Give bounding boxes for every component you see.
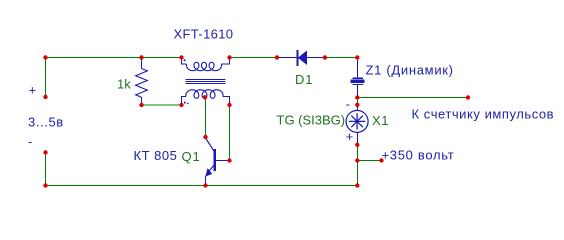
wire Z1 bottom to counter output	[358, 97, 469, 99]
node transformer primary top-left	[179, 55, 183, 59]
node transformer secondary right	[227, 103, 231, 107]
node Q1 collector junction	[227, 158, 231, 162]
node diode cathode-side	[323, 55, 327, 59]
transistor Q1 base bar	[214, 149, 216, 171]
node transformer primary top-right	[227, 55, 231, 59]
node bottom-right corner	[355, 183, 359, 187]
node transformer center tap	[203, 95, 207, 99]
transistor Q1 KT805 base lead	[206, 138, 215, 151]
Geiger tube X1 star symbol	[349, 113, 365, 129]
transistor Q1 collector lead	[216, 160, 229, 162]
wire top rail right segment	[325, 57, 357, 59]
Geiger tube X1 leads	[357, 106, 359, 144]
svg-text:Z1 (Динамик): Z1 (Динамик)	[366, 62, 454, 77]
wire secondary right to collector	[229, 105, 231, 161]
node Z1 top	[355, 55, 359, 59]
wire top rail left segment	[46, 57, 182, 59]
svg-text:+: +	[29, 83, 37, 98]
node X1 anode terminal	[355, 103, 359, 107]
piezo speaker Z1	[351, 60, 365, 96]
svg-text:TG (SI3BG): TG (SI3BG)	[277, 113, 346, 128]
transformer T1 core	[186, 79, 226, 83]
wire center tap to base	[205, 98, 207, 138]
transformer T1 phase dot mark 2 (secondary)	[187, 103, 189, 105]
wire resistor bottom to secondary	[142, 104, 182, 106]
node +350V terminal	[379, 158, 383, 162]
svg-text:3...5в: 3...5в	[28, 114, 64, 129]
transformer T1 phase dot (primary)	[184, 59, 186, 61]
node Q1 emitter junction	[203, 183, 207, 187]
wire left battery plus lead	[45, 58, 47, 98]
wire X1 bottom down to bottom rail	[357, 145, 359, 186]
svg-text:КТ 805: КТ 805	[134, 148, 178, 163]
node transformer secondary left	[179, 103, 183, 107]
wire bottom rail	[46, 185, 358, 187]
transformer T1 XFT-1610 primary winding (top coil)	[182, 58, 187, 65]
resistor R1 1k	[136, 59, 148, 104]
Geiger tube X1 SI3BG circle	[346, 110, 368, 132]
svg-text:-: -	[346, 96, 350, 111]
node +350V junction	[355, 158, 359, 162]
svg-text:-: -	[28, 134, 32, 149]
svg-text:+: +	[346, 129, 354, 144]
wire left battery minus lead	[45, 153, 47, 186]
transformer T1 phase dot (secondary)	[184, 102, 186, 104]
svg-text:X1: X1	[372, 113, 389, 128]
node X1 cathode terminal	[355, 143, 359, 147]
node battery plus terminal	[43, 95, 47, 99]
node top-left corner	[43, 55, 47, 59]
node resistor bottom	[139, 103, 143, 107]
wire Z1 bottom to X1 top	[357, 98, 359, 105]
node output to counter	[466, 95, 470, 99]
svg-text:К счетчику импульсов: К счетчику импульсов	[412, 106, 555, 121]
diode D1	[277, 50, 325, 66]
node Z1 bottom junction	[355, 95, 359, 99]
svg-text:XFT-1610: XFT-1610	[174, 27, 234, 42]
wire +350V stub	[358, 160, 382, 162]
svg-text:+350 вольт: +350 вольт	[382, 147, 455, 162]
node resistor top junction	[139, 55, 143, 59]
node battery minus terminal	[43, 150, 47, 154]
node Q1 base junction	[203, 135, 207, 139]
transformer T1 secondary winding (bottom coil)	[182, 97, 187, 105]
svg-text:D1: D1	[295, 72, 313, 87]
wire top rail middle segment	[230, 57, 278, 59]
transistor Q1 emitter lead with arrow	[208, 164, 215, 173]
node bottom-left corner	[43, 183, 47, 187]
svg-text:1k: 1k	[117, 76, 131, 91]
node diode anode-side	[275, 55, 279, 59]
svg-text:Q1: Q1	[182, 149, 201, 164]
